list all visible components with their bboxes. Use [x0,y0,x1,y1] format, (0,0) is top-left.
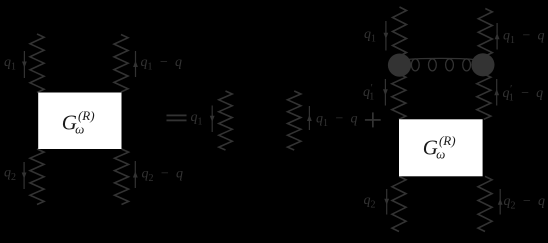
arrow q1'-q up (right) [494,79,499,106]
equals sign [167,115,187,122]
wire: zigzag photon q1-q [114,35,128,93]
arrow q1 down [22,51,27,78]
svg-text:q2−q: q2−q [142,167,183,185]
svg-text:q2−q: q2−q [504,194,545,212]
wire: zigzag photon q1 (right diagram) [393,7,407,56]
wire: zigzag photon q2-q [115,149,129,205]
box G1: white box [38,93,121,150]
svg-text:q1−q: q1−q [316,112,357,130]
wire: gluon spring between blobs [407,58,474,71]
wire: zigzag photon q1'-q (right diagram) [477,74,491,119]
wire: zigzag photon q1-q (right diagram) [478,9,492,57]
arrow q2 down [22,162,27,189]
wire: zigzag photon q2 (right diagram) [392,176,406,231]
blob vertex left [388,54,411,77]
wire: zigzag photon middle q1-q [288,91,301,150]
arrow q1 down (middle) [210,106,215,133]
wire: zigzag photon q1 [30,34,44,93]
arrow q1-q up (right) [495,23,500,50]
svg-text:q1−q: q1−q [141,55,182,73]
wire: zigzag photon middle q1 [219,91,232,150]
arrow q2-q up (right) [498,189,503,215]
wire: zigzag photon q1' (right diagram) [392,74,406,119]
blob vertex right [471,53,494,76]
arrow q1-q up [133,51,138,77]
svg-text:q1−q: q1−q [503,29,544,47]
wire: zigzag photon q2-q (right diagram) [478,176,492,231]
arrow q1 down (right) [384,21,389,51]
arrow q1' down (right) [383,79,388,106]
arrow q2 down (right) [384,189,389,215]
arrow q2-q up [133,161,138,188]
svg-text:q′1−q: q′1−q [503,84,544,104]
box G2: white box [399,119,483,176]
plus sign [365,112,381,127]
wire: zigzag photon q2 [30,149,44,205]
arrow q1-q up (middle) [307,106,312,130]
